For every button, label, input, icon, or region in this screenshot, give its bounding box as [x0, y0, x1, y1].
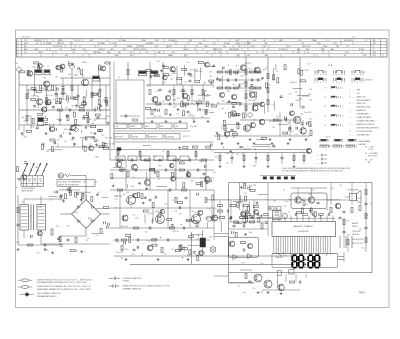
svg-text:C84: C84 — [172, 231, 175, 233]
svg-text:6.2: 6.2 — [72, 52, 75, 54]
svg-text:B5 D1 4/22: B5 D1 4/22 — [22, 37, 31, 39]
svg-text:10n: 10n — [83, 181, 86, 183]
svg-text:T35: T35 — [176, 113, 179, 115]
svg-text:T58: T58 — [175, 231, 178, 233]
svg-text:100: 100 — [272, 127, 275, 129]
svg-text:R12 TS: R12 TS — [183, 136, 190, 138]
svg-text:2n2: 2n2 — [123, 194, 126, 196]
svg-text:0.1: 0.1 — [48, 91, 51, 93]
svg-text:0.1: 0.1 — [202, 254, 205, 256]
svg-text:F2 — SLUIMER: F2 — SLUIMER — [365, 153, 379, 155]
svg-text:L5: L5 — [307, 52, 309, 54]
svg-text:68k 5k6: 68k 5k6 — [64, 129, 72, 131]
svg-text:1/8W: 1/8W — [278, 40, 283, 42]
svg-text:4k7: 4k7 — [206, 95, 209, 97]
svg-text:C3: C3 — [283, 190, 285, 192]
svg-text:0.7: 0.7 — [206, 52, 209, 54]
svg-text:0.7: 0.7 — [146, 52, 149, 54]
svg-text:5k6: 5k6 — [89, 119, 92, 121]
svg-text:6: 6 — [350, 117, 351, 119]
svg-text:100: 100 — [114, 208, 117, 210]
svg-text:1k: 1k — [276, 71, 278, 73]
svg-text:5 2: 5 2 — [324, 125, 326, 127]
svg-text:TS8: TS8 — [155, 211, 158, 213]
svg-text:3117: 3117 — [122, 49, 126, 51]
svg-text:L5: L5 — [70, 43, 72, 45]
svg-text:2n2 100: 2n2 100 — [105, 138, 113, 140]
svg-text:1.8: 1.8 — [288, 46, 291, 48]
svg-text:220: 220 — [284, 206, 287, 208]
svg-text:47p: 47p — [165, 203, 168, 205]
svg-text:R79: R79 — [191, 94, 194, 96]
svg-text:ALARM: ALARM — [352, 222, 358, 225]
svg-text:3.3: 3.3 — [267, 49, 270, 51]
svg-text:R58: R58 — [74, 75, 77, 77]
svg-text:3: 3 — [18, 46, 19, 48]
svg-text:REGEL: REGEL — [132, 136, 138, 138]
svg-text:C9: C9 — [238, 286, 240, 288]
svg-text:220: 220 — [215, 156, 218, 158]
svg-text:•–: •– — [317, 163, 319, 165]
svg-text:T60: T60 — [56, 226, 59, 228]
svg-text:5k6: 5k6 — [252, 89, 255, 91]
svg-text:5k6: 5k6 — [179, 246, 182, 248]
svg-text:DUAL CIRCUIT DIAGRAM WAS DRAWN: DUAL CIRCUIT DIAGRAM WAS DRAWN SHOWN IN … — [282, 167, 350, 170]
svg-text:100: 100 — [244, 185, 247, 187]
svg-text:CLOCK 8V: CLOCK 8V — [53, 46, 63, 48]
svg-text:VOL: VOL — [253, 40, 257, 42]
svg-text:FM 88-104: FM 88-104 — [230, 49, 239, 51]
svg-text:220: 220 — [209, 76, 212, 78]
svg-text:BAL: BAL — [183, 48, 187, 51]
svg-text:L45: L45 — [90, 110, 93, 112]
svg-text:AFC: AFC — [306, 48, 310, 51]
svg-text:0.45: 0.45 — [246, 55, 250, 57]
svg-text:MINIATURE ELECTROLYTIC CAPACIT: MINIATURE ELECTROLYTIC CAPACITOR AND CO … — [123, 285, 171, 288]
svg-text:CHEMBEL VERKITON: CHEMBEL VERKITON — [123, 288, 142, 290]
svg-text:L25: L25 — [115, 199, 118, 201]
svg-text:AFC: AFC — [205, 45, 209, 48]
svg-text:220V: 220V — [167, 46, 172, 48]
svg-text:10n: 10n — [145, 231, 148, 233]
svg-text:AF: AF — [368, 161, 370, 164]
svg-text:R58: R58 — [131, 186, 134, 188]
svg-text:SNZ DRUK: SNZ DRUK — [368, 156, 378, 158]
svg-text:0.1: 0.1 — [206, 109, 209, 111]
svg-text:10n: 10n — [252, 288, 255, 290]
svg-text:TS1: TS1 — [43, 78, 46, 80]
svg-text:R26: R26 — [253, 166, 256, 168]
svg-text:10.7MHz: 10.7MHz — [119, 40, 127, 42]
svg-text:2n2: 2n2 — [223, 126, 226, 128]
svg-text:C70: C70 — [365, 215, 368, 217]
svg-text:F1 — TIJD: F1 — TIJD — [365, 147, 374, 149]
svg-text:3117: 3117 — [190, 180, 194, 182]
svg-text:AF VOOR: AF VOOR — [115, 135, 123, 138]
svg-text:220: 220 — [90, 138, 93, 140]
svg-text:1 2: 1 2 — [324, 88, 326, 90]
svg-text:MW 510-1620: MW 510-1620 — [133, 49, 145, 51]
svg-text:R72: R72 — [237, 70, 240, 72]
svg-text:L16: L16 — [131, 177, 134, 179]
svg-text:T29: T29 — [120, 258, 123, 260]
svg-text:3117: 3117 — [309, 118, 313, 120]
svg-text:220 100: 220 100 — [229, 88, 237, 90]
svg-text:1/8W: 1/8W — [141, 40, 146, 42]
svg-text:SNZE SLP: SNZE SLP — [352, 234, 360, 236]
svg-text:RADIO ON: RADIO ON — [357, 95, 367, 98]
svg-text:10.7MHz: 10.7MHz — [93, 52, 101, 54]
svg-text:6.2: 6.2 — [203, 40, 206, 42]
svg-text:1-6: 1-6 — [373, 40, 376, 42]
svg-text:4k7: 4k7 — [301, 198, 304, 200]
svg-text:50Hz: 50Hz — [323, 46, 327, 48]
svg-text:SECTEUR / NETSPANNING: SECTEUR / NETSPANNING — [59, 181, 82, 184]
svg-text:0.45: 0.45 — [112, 43, 116, 45]
svg-text:68k: 68k — [249, 232, 252, 234]
svg-text:2n2 C34: 2n2 C34 — [45, 95, 53, 97]
svg-text:0.1 5k6: 0.1 5k6 — [122, 249, 129, 251]
svg-text:1/8W: 1/8W — [38, 52, 43, 54]
svg-text:68k 2n2: 68k 2n2 — [121, 226, 129, 228]
svg-text:6.2: 6.2 — [129, 52, 132, 54]
svg-text:BAL: BAL — [107, 51, 111, 54]
svg-text:TS2: TS2 — [81, 76, 84, 78]
svg-text:VOL: VOL — [363, 55, 367, 57]
svg-text:6: 6 — [18, 55, 19, 57]
svg-text:BAL: BAL — [265, 54, 269, 57]
svg-text:L31: L31 — [59, 200, 62, 202]
svg-text:C12: C12 — [24, 40, 27, 42]
svg-text:8n2 3117: 8n2 3117 — [268, 147, 277, 149]
svg-text:9: 9 — [350, 134, 351, 136]
svg-text:47p: 47p — [243, 292, 246, 294]
svg-text:BAL: BAL — [34, 48, 38, 51]
svg-text:2.2: 2.2 — [194, 49, 197, 51]
svg-text:3117: 3117 — [218, 52, 222, 54]
svg-text:5k6: 5k6 — [225, 87, 228, 89]
svg-text:DET: DET — [175, 126, 178, 128]
svg-text:8p2: 8p2 — [90, 220, 93, 222]
svg-text:R59: R59 — [262, 69, 265, 71]
svg-text:T60: T60 — [158, 105, 161, 107]
svg-text:1: 1 — [350, 89, 351, 91]
svg-text:L87: L87 — [117, 242, 120, 244]
svg-text:1k: 1k — [130, 206, 132, 208]
svg-text:2n2: 2n2 — [260, 292, 263, 294]
svg-text:C32: C32 — [53, 143, 56, 145]
svg-text:R11: R11 — [53, 192, 56, 194]
svg-text:47p C34: 47p C34 — [116, 252, 124, 254]
svg-text:2n2: 2n2 — [50, 200, 53, 202]
svg-text:K=1000: K=1000 — [169, 40, 176, 42]
svg-text:C23: C23 — [150, 213, 153, 215]
svg-text:KOOLWEERSTAND E12 SERIE 1/8 W: KOOLWEERSTAND E12 SERIE 1/8 W TOL 5% – (… — [37, 281, 87, 284]
svg-text:C58: C58 — [294, 134, 297, 136]
svg-text:SLAAP IN RADIO: SLAAP IN RADIO — [357, 116, 372, 119]
svg-text:220: 220 — [236, 154, 239, 156]
svg-text:R29: R29 — [53, 100, 56, 102]
svg-text:0.1: 0.1 — [239, 198, 242, 200]
svg-text:MF2: MF2 — [160, 126, 163, 128]
svg-text:C75: C75 — [28, 215, 31, 217]
svg-text:8p2: 8p2 — [198, 100, 201, 102]
svg-text:T51: T51 — [205, 103, 208, 105]
svg-text:R1: R1 — [73, 138, 75, 140]
svg-text:UUR MINUTEN: UUR MINUTEN — [357, 134, 371, 136]
svg-text:3117 3117: 3117 3117 — [189, 70, 199, 72]
svg-text:C37: C37 — [208, 209, 211, 211]
svg-text:8.4: 8.4 — [237, 43, 240, 45]
svg-text:2n2: 2n2 — [285, 133, 288, 135]
svg-text:— MW/LW: — MW/LW — [363, 80, 372, 82]
svg-text:LINEAR RESISTOR STANDARD E12 1: LINEAR RESISTOR STANDARD E12 1/8 W TOL 1… — [37, 285, 91, 288]
svg-text:C73: C73 — [174, 211, 177, 213]
svg-text:220: 220 — [46, 250, 49, 252]
svg-text:7.1: 7.1 — [239, 46, 242, 48]
svg-text:L45: L45 — [38, 207, 41, 209]
svg-text:R23: R23 — [309, 194, 312, 196]
svg-text:R41: R41 — [304, 204, 307, 206]
svg-text:L9: L9 — [143, 244, 145, 246]
svg-text:1k: 1k — [86, 240, 88, 242]
svg-text:WEKKER ZOEM: WEKKER ZOEM — [357, 107, 371, 109]
svg-text:T94: T94 — [199, 160, 202, 162]
svg-text:1/8W: 1/8W — [98, 49, 103, 51]
svg-text:10n: 10n — [241, 153, 244, 155]
svg-text:FLAT CERAMIC CAPACITOR: FLAT CERAMIC CAPACITOR — [37, 292, 62, 295]
svg-text:10.7MHz: 10.7MHz — [146, 43, 154, 45]
svg-text:100: 100 — [253, 120, 256, 122]
svg-text:2 2: 2 2 — [324, 97, 326, 99]
svg-text:47p: 47p — [158, 179, 161, 181]
svg-text:5k6: 5k6 — [71, 105, 74, 107]
svg-text:L47: L47 — [271, 105, 274, 107]
svg-text:L75: L75 — [339, 185, 342, 187]
svg-text:WEKKEN FREQUENTIE B: WEKKEN FREQUENTIE B — [357, 127, 380, 129]
svg-text:EINDTRP: EINDTRP — [149, 136, 157, 138]
svg-text:MAINS / NETZSPANNUNG: MAINS / NETZSPANNUNG — [59, 184, 80, 187]
svg-text:T24: T24 — [172, 200, 175, 202]
svg-text:100 47p: 100 47p — [179, 90, 187, 92]
svg-text:7: 7 — [350, 124, 351, 126]
svg-text:5k6: 5k6 — [82, 101, 85, 103]
svg-text:4/22: 4/22 — [373, 43, 377, 45]
svg-text:C34 47p: C34 47p — [244, 91, 252, 93]
svg-text:STAB: STAB — [127, 45, 133, 48]
svg-text:220: 220 — [243, 193, 246, 195]
svg-text:1/8W: 1/8W — [138, 46, 143, 48]
svg-text:FM 88-104: FM 88-104 — [344, 40, 353, 42]
svg-text:4: 4 — [18, 49, 19, 51]
svg-text:0.1: 0.1 — [60, 49, 63, 51]
svg-text:0.45: 0.45 — [317, 43, 321, 45]
svg-text:MENG: MENG — [130, 126, 136, 128]
svg-text:2n2: 2n2 — [87, 238, 90, 240]
svg-text:57: 57 — [120, 37, 122, 39]
svg-text:VOEDING: VOEDING — [166, 136, 174, 138]
svg-text:TS9: TS9 — [191, 211, 194, 213]
svg-text:4 2: 4 2 — [324, 116, 326, 118]
svg-text:C22: C22 — [135, 218, 138, 220]
svg-text:RESET: RESET — [352, 226, 358, 228]
svg-text:R12 68k: R12 68k — [248, 100, 255, 102]
svg-text:•–: •– — [317, 159, 319, 161]
svg-text:1: 1 — [18, 40, 19, 42]
svg-text:KERAMISCHE PLAKCO: KERAMISCHE PLAKCO — [37, 295, 57, 298]
svg-text:47p: 47p — [41, 213, 44, 215]
svg-text:CARBON RESISTOR E12 1/8 W 1/10: CARBON RESISTOR E12 1/8 W 1/10 W ± 5% TO… — [37, 278, 92, 281]
svg-text:4k7: 4k7 — [358, 198, 361, 200]
svg-text:C1: C1 — [245, 68, 247, 70]
svg-text:BAL: BAL — [157, 51, 161, 54]
svg-text:68k: 68k — [179, 83, 182, 85]
svg-text:BAL: BAL — [24, 48, 28, 51]
svg-text:10n: 10n — [168, 75, 171, 77]
svg-text:OSC: OSC — [223, 46, 228, 48]
svg-text:MF1: MF1 — [145, 126, 148, 128]
svg-text:2.2: 2.2 — [261, 52, 264, 54]
svg-text:T44: T44 — [309, 100, 312, 102]
svg-text:E12: E12 — [65, 55, 68, 57]
svg-text:L83: L83 — [196, 239, 199, 241]
svg-text:3: 3 — [350, 96, 351, 98]
svg-text:100: 100 — [173, 107, 176, 109]
svg-text:100: 100 — [291, 131, 294, 133]
svg-text:L84: L84 — [192, 119, 195, 121]
svg-text:L56: L56 — [30, 90, 33, 92]
svg-text:68k: 68k — [89, 126, 92, 128]
svg-text:L49: L49 — [227, 81, 230, 83]
svg-text:220: 220 — [147, 86, 150, 88]
svg-text:C82: C82 — [154, 110, 157, 112]
svg-text:2: 2 — [18, 43, 19, 45]
svg-text:6.2: 6.2 — [344, 55, 347, 57]
svg-text:G22: G22 — [373, 52, 376, 54]
svg-text:R10: R10 — [288, 94, 291, 96]
svg-text:220 220: 220 220 — [302, 96, 310, 98]
svg-text:C4: C4 — [225, 128, 227, 130]
svg-text:10.7MHz: 10.7MHz — [97, 43, 105, 45]
svg-text:OSC: OSC — [47, 43, 52, 45]
svg-text:8p2: 8p2 — [226, 153, 229, 155]
svg-text:1.8: 1.8 — [188, 40, 191, 42]
svg-text:47p: 47p — [21, 117, 24, 119]
svg-text:100: 100 — [158, 116, 161, 118]
svg-text:OSC: OSC — [198, 43, 203, 45]
svg-text:G 22: G 22 — [352, 37, 356, 39]
svg-text:C5: C5 — [36, 69, 38, 71]
svg-text:C37: C37 — [265, 67, 268, 69]
svg-text:0.45: 0.45 — [154, 46, 158, 48]
svg-text:STAB: STAB — [312, 39, 318, 42]
svg-text:T45: T45 — [214, 208, 217, 210]
svg-text:GR1: GR1 — [74, 212, 78, 214]
svg-text:4k7: 4k7 — [44, 102, 47, 104]
svg-text:47p 560: 47p 560 — [190, 126, 198, 128]
svg-text:T22: T22 — [248, 281, 251, 283]
svg-text:B40: B40 — [297, 52, 300, 54]
svg-text:T65: T65 — [101, 135, 104, 137]
svg-text:C32: C32 — [311, 190, 314, 192]
svg-text:SLUIMER VAN RADIO: SLUIMER VAN RADIO — [357, 119, 376, 122]
svg-text:4: 4 — [350, 103, 351, 105]
svg-text:100: 100 — [37, 252, 40, 254]
svg-text:VOL: VOL — [82, 49, 86, 51]
svg-text:WAVE RANGE: WAVE RANGE — [22, 190, 34, 193]
svg-text:T59: T59 — [213, 172, 216, 174]
svg-text:L15: L15 — [184, 82, 187, 84]
svg-text:IF 460: IF 460 — [224, 43, 229, 45]
svg-text:7.1: 7.1 — [264, 43, 267, 45]
svg-text:T46: T46 — [267, 84, 270, 86]
svg-text:47p: 47p — [152, 156, 155, 158]
svg-text:T72: T72 — [132, 215, 135, 217]
svg-text:L64: L64 — [249, 186, 252, 188]
svg-text:8.4: 8.4 — [172, 52, 175, 54]
svg-text:LM 8560 NB: LM 8560 NB — [298, 231, 309, 233]
svg-text:+1 ALARM: +1 ALARM — [357, 143, 366, 146]
svg-text:4k7: 4k7 — [93, 120, 96, 122]
svg-text:SEC 12V: SEC 12V — [34, 40, 43, 42]
svg-text:L50: L50 — [64, 99, 67, 101]
svg-text:T49: T49 — [21, 135, 24, 137]
svg-text:CRYST ALARM: CRYST ALARM — [347, 189, 359, 192]
svg-text:E12: E12 — [184, 55, 187, 57]
svg-text:0.1: 0.1 — [151, 220, 154, 222]
svg-text:T83: T83 — [288, 200, 291, 202]
svg-text:3 2: 3 2 — [324, 106, 326, 108]
svg-text:ZOEMER AAN: ZOEMER AAN — [357, 113, 370, 116]
svg-text:47p: 47p — [64, 141, 67, 143]
svg-text:5: 5 — [350, 110, 351, 112]
svg-text:TOL 5%: TOL 5% — [74, 40, 81, 42]
svg-text:0.1: 0.1 — [162, 151, 165, 153]
svg-text:2n2 R12: 2n2 R12 — [301, 70, 309, 72]
svg-text:L20: L20 — [159, 220, 162, 222]
svg-text:R88: R88 — [95, 157, 98, 159]
svg-text:R96: R96 — [147, 241, 150, 243]
svg-text:5: 5 — [18, 52, 19, 54]
svg-text:R33: R33 — [96, 140, 99, 142]
svg-text:C12: C12 — [298, 40, 301, 42]
svg-text:0.1: 0.1 — [225, 137, 228, 139]
svg-text:5k6 4k7: 5k6 4k7 — [290, 82, 298, 84]
svg-text:E12: E12 — [333, 43, 336, 45]
svg-text:8p2: 8p2 — [116, 196, 119, 198]
svg-text:1 2: 1 2 — [363, 72, 366, 74]
svg-text:T5: T5 — [212, 87, 214, 89]
svg-text:C39: C39 — [300, 152, 303, 154]
svg-text:3117: 3117 — [298, 117, 302, 119]
svg-text:47p: 47p — [189, 114, 192, 116]
svg-text:1k: 1k — [103, 100, 105, 102]
svg-text:3117: 3117 — [248, 69, 252, 71]
svg-text:BAL: BAL — [331, 48, 335, 51]
svg-text:3.3: 3.3 — [24, 52, 27, 54]
svg-text:4k7: 4k7 — [57, 139, 60, 141]
svg-text:10n 220: 10n 220 — [304, 112, 312, 114]
svg-text:1k: 1k — [370, 203, 372, 205]
svg-text:R62: R62 — [300, 113, 303, 115]
svg-text:WEKKER RADIO: WEKKER RADIO — [357, 99, 372, 102]
svg-text:ALARM BY ZOEM BV: ALARM BY ZOEM BV — [357, 123, 376, 126]
svg-text:220: 220 — [359, 229, 362, 231]
svg-text:4k7: 4k7 — [254, 280, 257, 282]
svg-text:R49: R49 — [240, 75, 243, 77]
svg-text:R74: R74 — [347, 235, 350, 237]
svg-text:C39: C39 — [94, 181, 97, 183]
